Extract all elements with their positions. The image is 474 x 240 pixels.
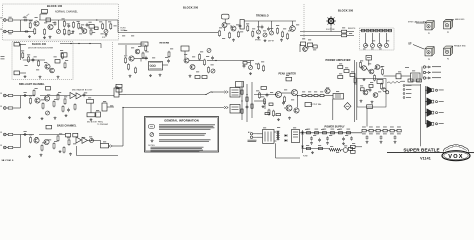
ground — [43, 36, 46, 39]
node terminal t3 — [403, 93, 405, 95]
node value label 58 — [302, 38, 305, 41]
node value label 99 — [35, 136, 38, 139]
wire — [39, 19, 60, 21]
wire — [413, 45, 424, 50]
node SP1 terminal — [436, 89, 438, 91]
node value label 83 — [24, 91, 27, 94]
node value label 68 — [256, 90, 259, 93]
capacitor C2 — [67, 24, 70, 28]
node value label 46 — [236, 24, 239, 27]
capacitor C9 — [261, 25, 264, 29]
transistor TR17 — [44, 139, 49, 144]
node terminal T2 — [366, 29, 369, 32]
node value label 36 — [165, 56, 168, 59]
node SP4 label — [439, 122, 444, 125]
resistor R26 — [168, 51, 170, 58]
node value label 11 — [81, 24, 84, 27]
transistor TR5 — [50, 68, 55, 73]
node terminal T1 — [362, 29, 365, 32]
resistor R52 — [258, 63, 260, 70]
svg-text:BLOCK 100: BLOCK 100 — [47, 4, 63, 8]
node value label 13 — [99, 21, 102, 24]
capacitor C20 — [350, 136, 353, 140]
resistor R89 — [361, 88, 365, 91]
capacitor C16 — [310, 136, 313, 140]
capacitor C24 — [369, 88, 372, 92]
node AC label — [248, 140, 257, 142]
wire — [330, 26, 332, 31]
ground — [105, 34, 108, 37]
node SP2 label — [439, 100, 444, 103]
resistor R3 — [29, 22, 31, 29]
node info row2 icon — [150, 133, 154, 137]
resistor R96 — [319, 147, 323, 149]
node value label 61 — [313, 49, 316, 52]
ground — [28, 116, 31, 119]
resistor R97 — [62, 105, 64, 112]
resistor R30 — [195, 76, 200, 79]
switch SW1 — [203, 92, 213, 96]
svg-text:BLOCK 200: BLOCK 200 — [183, 6, 199, 10]
wire — [303, 148, 330, 150]
node dwell box — [181, 46, 189, 51]
node value label 122 — [321, 128, 324, 131]
node value label 67 — [286, 74, 289, 77]
node value label 106 — [82, 136, 85, 139]
svg-text:P2: P2 — [447, 32, 449, 34]
ground — [72, 30, 75, 33]
resistor R98 — [74, 103, 76, 110]
ground — [28, 35, 31, 38]
resistor R7 — [63, 28, 65, 35]
node junction — [70, 43, 71, 44]
ground — [54, 117, 57, 120]
node value label 120 — [305, 128, 308, 131]
resistor R59 — [264, 98, 266, 105]
node value label 26 — [60, 49, 63, 52]
node terminal strip — [411, 73, 421, 81]
resistor R5 — [46, 18, 50, 22]
node boost box — [87, 100, 94, 104]
node osc box — [301, 42, 306, 46]
resistor R71 — [338, 76, 343, 79]
resistor R17 — [64, 62, 66, 69]
node limiter box — [286, 77, 292, 81]
svg-text:FUSE: FUSE — [303, 155, 308, 157]
node info row3 icon — [151, 139, 154, 142]
node value label 103 — [59, 133, 62, 136]
node reg box2 — [351, 150, 356, 153]
node junction — [96, 19, 97, 20]
svg-text:VOL: VOL — [102, 37, 106, 39]
node value label 82 — [339, 73, 342, 76]
resistor R65 — [308, 95, 312, 97]
wire — [60, 19, 97, 21]
node value label 70 — [270, 91, 273, 94]
transistor TR4 — [45, 64, 50, 69]
resistor R92 — [73, 21, 75, 28]
wire — [421, 67, 423, 79]
node value label 107 — [89, 136, 92, 139]
wire — [300, 31, 341, 33]
node trim caption — [363, 48, 366, 51]
wire — [425, 86, 427, 124]
transformer T1 secondary — [277, 131, 280, 141]
node value label 116 — [378, 91, 381, 94]
resistor R2 — [7, 30, 14, 32]
wire — [244, 20, 296, 22]
node value label 10 — [77, 20, 80, 23]
node junction — [246, 94, 247, 95]
node value label 44 — [219, 27, 222, 30]
node info row3 text — [159, 139, 211, 141]
resistor R1 — [7, 19, 14, 21]
node value label 130 — [263, 127, 266, 130]
ground — [149, 74, 152, 77]
node value label 14 — [108, 21, 111, 24]
node value label 96 — [115, 86, 118, 89]
ground — [311, 151, 314, 154]
connector P3 — [425, 47, 434, 56]
node junction — [215, 60, 216, 61]
node output box — [101, 143, 109, 148]
node connector block2 — [236, 82, 244, 88]
resistor R80 — [362, 129, 366, 132]
wire — [40, 95, 70, 97]
node selector boundary — [360, 28, 395, 50]
svg-text:P3: P3 — [428, 59, 430, 61]
node value label 125 — [345, 134, 348, 137]
resistor R75 — [323, 132, 327, 134]
node value label 135 — [379, 44, 382, 47]
node boost box3 — [96, 112, 101, 117]
svg-text:NORMAL CHANNEL: NORMAL CHANNEL — [55, 10, 78, 13]
ground — [39, 76, 42, 79]
potentiometer VR14 — [249, 66, 253, 70]
ground — [310, 142, 313, 145]
transistor TR23 — [362, 66, 367, 71]
resistor R39 — [30, 97, 32, 104]
node terminal T5 — [380, 29, 383, 32]
jack J5 — [4, 133, 8, 136]
potentiometer VR8 — [364, 44, 368, 48]
transistor TR20 — [286, 105, 292, 111]
svg-text:BLOCK 300: BLOCK 300 — [338, 9, 354, 13]
speaker SP4 — [425, 120, 434, 128]
node value label 33 — [138, 45, 141, 48]
resistor R57 — [241, 109, 243, 113]
node bias box — [261, 87, 267, 90]
wire — [39, 134, 65, 136]
diode D1 — [285, 134, 287, 136]
wire — [88, 139, 101, 141]
potentiometer VR2 — [104, 30, 108, 34]
jack J2 — [4, 30, 8, 33]
wire — [366, 108, 368, 126]
svg-text:SPEED: SPEED — [255, 40, 262, 42]
capacitor C10 — [267, 27, 270, 31]
node value label 134 — [372, 40, 375, 43]
ground — [49, 36, 52, 39]
resistor R88 — [374, 74, 376, 81]
node junction — [122, 107, 123, 108]
capacitor C12 — [83, 93, 86, 97]
wire — [100, 140, 102, 143]
node bias box — [46, 87, 51, 91]
wire — [347, 31, 354, 33]
node value label 80 — [345, 67, 348, 70]
resistor R73 — [307, 132, 311, 134]
wire — [14, 95, 21, 97]
node connector block — [230, 88, 240, 98]
thermistor TH1 — [343, 148, 348, 153]
wire — [21, 31, 34, 33]
node tremolo in box — [240, 20, 244, 30]
node th box — [349, 147, 353, 150]
resistor R22 — [128, 63, 130, 70]
node value label 65 — [247, 61, 250, 64]
resistor R6 — [63, 20, 65, 27]
svg-text:VOX: VOX — [448, 154, 463, 160]
resistor R81 — [369, 129, 373, 132]
node junction — [297, 95, 298, 96]
node value label 41 — [206, 55, 209, 58]
transistor TR21 — [294, 108, 299, 113]
wire — [472, 152, 474, 154]
node relay box2 — [116, 89, 122, 92]
node out caption — [405, 66, 409, 69]
ground — [363, 78, 366, 81]
node value label 20 — [101, 33, 104, 36]
resistor R64 — [302, 95, 306, 97]
node value label 45 — [227, 23, 230, 26]
node value label 2 — [9, 33, 12, 36]
node value label 71 — [284, 89, 287, 92]
wire — [122, 108, 124, 147]
node value label 40 — [200, 51, 203, 54]
wire — [426, 89, 429, 91]
node value label 55 — [283, 28, 286, 31]
node filter box — [89, 25, 94, 29]
node plug arrow — [224, 106, 228, 109]
diode D4 — [301, 146, 303, 148]
node SP3 terminal — [436, 112, 438, 114]
resistor R43 — [57, 93, 59, 100]
node value label 54 — [276, 24, 279, 27]
ground — [57, 76, 60, 79]
node connector block3 — [230, 105, 240, 114]
resistor R60 — [268, 109, 270, 116]
connector P4 — [444, 46, 453, 55]
wire — [21, 19, 33, 21]
wire — [360, 30, 392, 32]
resistor R77 — [339, 132, 343, 134]
node boost box2 — [87, 113, 95, 117]
node value label 92 — [88, 97, 91, 100]
node value label 93 — [96, 109, 99, 112]
node value label 21 — [21, 50, 24, 53]
node chassis boundary — [303, 4, 305, 40]
svg-text:BASS CHANNEL: BASS CHANNEL — [57, 125, 77, 128]
node value label 110 — [368, 63, 371, 66]
resistor R29 — [208, 66, 210, 73]
node output trans box — [333, 94, 344, 100]
svg-text:TREMOLO: TREMOLO — [256, 15, 269, 18]
ground — [249, 72, 252, 75]
wire — [416, 22, 424, 24]
node reverb in box — [141, 42, 148, 46]
resistor R25 — [145, 45, 147, 52]
node value label 84 — [29, 95, 32, 98]
potentiometer VR4 — [211, 69, 215, 73]
node value label 17 — [71, 32, 74, 35]
potentiometer VR5 — [257, 30, 261, 34]
resistor R46 — [7, 146, 14, 148]
capacitor C30 — [54, 21, 57, 25]
node value label 63 — [349, 32, 352, 35]
node info row1 icon — [149, 125, 155, 128]
ground — [262, 105, 265, 108]
node value label 42 — [211, 64, 214, 67]
svg-text:GENERAL INFORMATION: GENERAL INFORMATION — [164, 119, 199, 123]
node value label 126 — [330, 145, 333, 148]
svg-text:REVERB: REVERB — [160, 43, 170, 45]
node bias box — [46, 125, 52, 129]
node value label 23 — [34, 56, 37, 59]
transistor TR19 — [292, 90, 298, 96]
node part box — [95, 27, 99, 30]
wire — [274, 131, 277, 133]
resistor R93 — [284, 96, 286, 103]
node value label 18 — [79, 33, 82, 36]
node SP2 terminal — [436, 101, 438, 103]
node value label 121 — [313, 134, 316, 137]
node terminal t2 — [403, 89, 405, 91]
node value label 49 — [246, 23, 249, 26]
node value label 118 — [398, 71, 401, 74]
resistor R95 — [307, 147, 311, 149]
capacitor C1 — [23, 19, 27, 22]
resistor R53 — [263, 65, 265, 72]
node terminal T6 — [384, 29, 387, 32]
node SP4 terminal — [436, 123, 438, 125]
wire — [60, 43, 101, 45]
node pilot lamp — [383, 88, 386, 91]
node value label 50 — [252, 28, 255, 31]
node chassis boundary — [112, 42, 114, 80]
resistor R11 — [102, 23, 104, 30]
node connector box — [14, 71, 20, 75]
node junction — [275, 94, 276, 95]
resistor R78 — [347, 132, 351, 134]
node fuse box F1 — [342, 30, 347, 33]
node value label 79 — [339, 63, 342, 66]
node terminal T4 — [375, 29, 378, 32]
resistor R69 — [344, 70, 349, 73]
wire — [212, 91, 224, 93]
node value label 119 — [412, 70, 415, 73]
svg-text:BRILLIANT CHANNEL: BRILLIANT CHANNEL — [19, 83, 45, 86]
resistor R31 — [202, 76, 207, 79]
node out box — [377, 80, 383, 84]
node driver box — [222, 14, 230, 19]
node jack box2 — [417, 79, 422, 82]
node value label 64 — [255, 63, 258, 66]
svg-text:DISTORTION BOOSTER: DISTORTION BOOSTER — [28, 48, 54, 50]
node value label 74 — [308, 91, 311, 94]
ground — [257, 36, 260, 39]
node value label 47 — [240, 31, 243, 34]
svg-text:MID BOOST FREQ: MID BOOST FREQ — [87, 121, 104, 123]
node value label 27 — [65, 59, 68, 62]
resistor R66 — [314, 95, 318, 97]
svg-text:SUPER BEATLE: SUPER BEATLE — [403, 147, 439, 152]
node reverb unit — [149, 62, 163, 71]
transistor TR12 — [290, 26, 296, 32]
node value label 94 — [103, 100, 106, 103]
node PH1 label — [432, 65, 441, 68]
resistor R86 — [360, 61, 362, 68]
node value label 112 — [381, 65, 384, 68]
node value label 75 — [314, 91, 317, 94]
resistor R33 — [252, 30, 254, 37]
resistor R20 — [238, 31, 240, 38]
node tone stack box — [102, 103, 107, 111]
node BLOCK 400 boundary — [12, 42, 73, 80]
resistor R32 — [247, 25, 249, 32]
potentiometer VR6 — [263, 33, 267, 37]
node value label 77 — [326, 87, 329, 90]
node value label 137 — [124, 29, 127, 32]
resistor R51 — [68, 139, 70, 146]
resistor R84 — [390, 129, 394, 132]
wire — [300, 35, 341, 37]
node junction — [241, 100, 242, 101]
node terminal t4 — [403, 97, 405, 99]
node value label 72 — [291, 99, 294, 102]
node value label 28 — [36, 69, 39, 72]
svg-text:DEPTH: DEPTH — [268, 41, 275, 43]
wire — [258, 21, 260, 30]
node value label 19 — [92, 31, 95, 34]
wire — [365, 33, 367, 44]
node bias box — [305, 103, 312, 107]
resistor R18 — [219, 30, 221, 37]
potentiometer VR7 — [270, 31, 274, 35]
node trim caption3 — [379, 48, 382, 51]
node value label 22 — [27, 54, 30, 57]
node value label 88 — [54, 98, 57, 101]
node SP3 label — [439, 111, 444, 114]
node VOX logo — [442, 145, 470, 161]
wire — [241, 82, 243, 120]
ground — [59, 150, 62, 153]
resistor R76 — [331, 132, 335, 134]
node value label 87 — [47, 94, 50, 97]
node PH2 label — [432, 71, 441, 74]
node input note2 — [1, 58, 5, 61]
transistor TR3 — [82, 29, 87, 34]
ground — [366, 141, 369, 144]
node plug arrow — [224, 91, 228, 94]
resistor R4 — [34, 28, 36, 35]
node terminal T7 — [389, 29, 392, 32]
transistor TR22 — [325, 88, 330, 93]
svg-text:POWER SUPPLY: POWER SUPPLY — [325, 125, 346, 128]
connector P1 — [425, 21, 434, 30]
capacitor C15 — [282, 101, 285, 105]
node value labels — [362, 133, 366, 136]
